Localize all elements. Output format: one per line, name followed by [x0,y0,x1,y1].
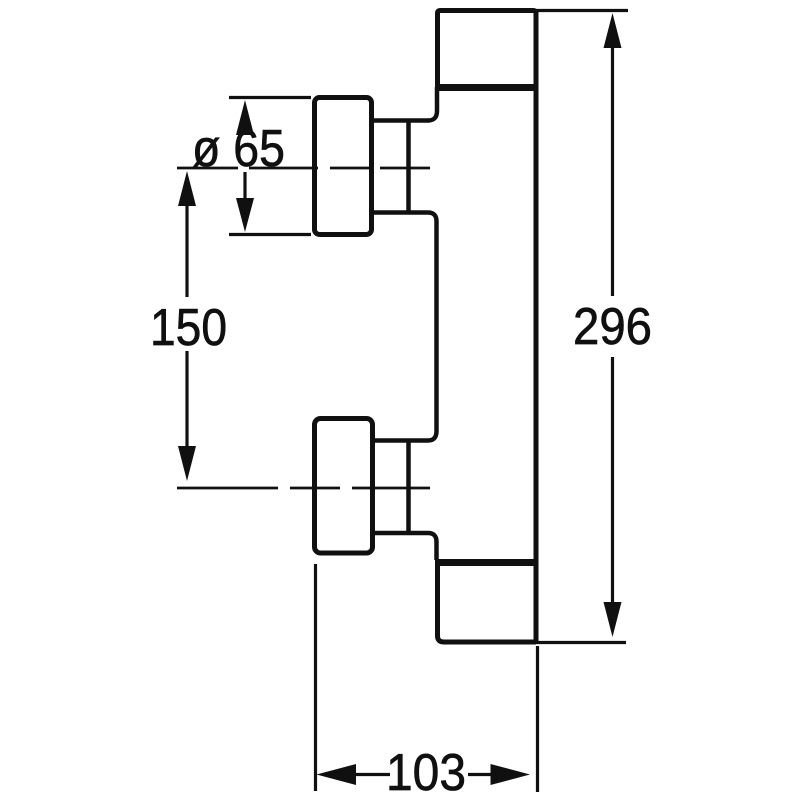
top cap of mixer body [435,11,538,88]
lower knob (handle) [315,419,373,554]
dimension 150 lower line and arrow (points down) [185,351,188,450]
dimension ø65 lower line and arrow (points down) [243,172,246,225]
dimension 103 left extension line [314,564,317,791]
svg-text:ø 65: ø 65 [192,120,285,178]
svg-text:103: 103 [386,744,466,800]
lower knob centerline (dash-dot) [177,487,430,490]
svg-text:150: 150 [150,299,227,357]
upper arm bottom edge with fillet into body left edge, middle section, fillet into lower arm top edge [372,213,437,441]
upper knob (handle) [315,98,372,235]
lower knob flange divider line [406,442,411,532]
upper arm top edge [372,118,429,123]
upper knob flange divider line [406,121,411,212]
dimension ø65 bottom extension line [229,233,311,236]
dimension 103 right line and arrow (points right) [468,773,493,776]
dimension ø65 top extension line [229,96,311,99]
dimension 150 upper arrow (points up) and line [178,171,196,206]
dimension ø65 upper arrow (points up) [236,100,254,135]
body right edge [534,10,539,643]
bottom cap of mixer body [435,563,538,643]
body left edge upper segment with fillet into upper arm [428,87,437,121]
dimension 103 right extension line [536,646,539,792]
dimension 296 bottom extension line [534,641,626,644]
dimension 103 left arrow (points left) and line [317,764,357,785]
upper knob centerline (dash-dot) [177,167,430,170]
svg-text:296: 296 [573,298,652,356]
dimension 296 lower line and arrow (points down) [611,357,614,602]
dimension 296 upper arrow (points up) and line [604,13,622,48]
dimension 296 top extension line [534,9,628,12]
lower arm bottom edge with fillet into body left edge lower segment [372,533,437,560]
